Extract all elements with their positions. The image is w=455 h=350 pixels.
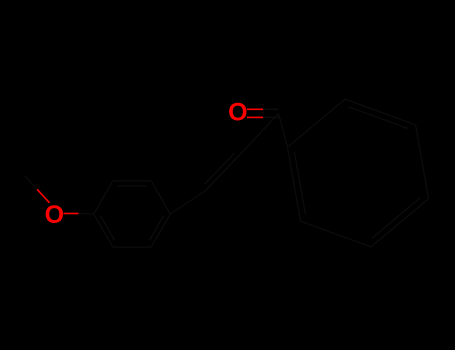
- svg-text:O: O: [45, 201, 64, 229]
- svg-text:O: O: [228, 99, 247, 127]
